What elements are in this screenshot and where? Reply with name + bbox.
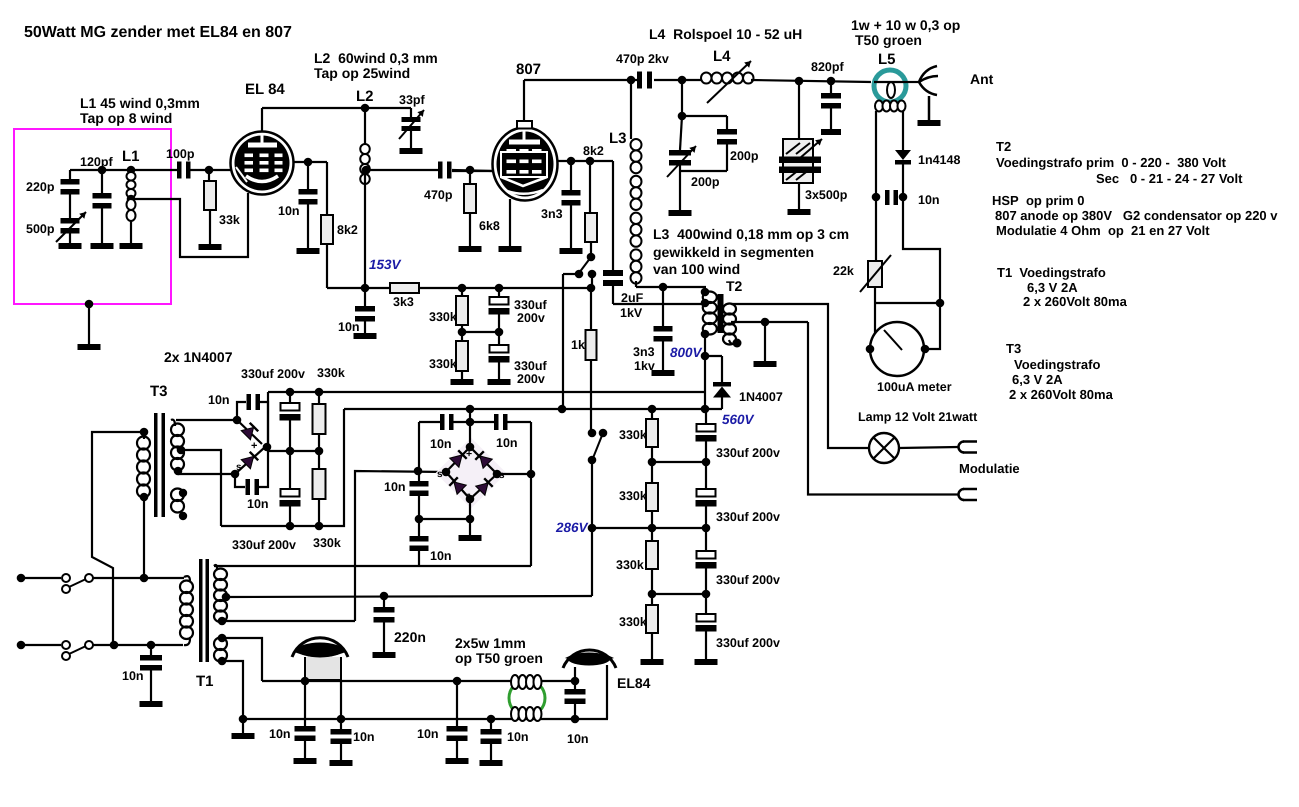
svg-text:330uf 200v: 330uf 200v [241,367,305,381]
ground 10n out2 [330,760,353,766]
svg-text:470p: 470p [424,188,453,202]
svg-text:100uA meter: 100uA meter [877,380,952,394]
svg-text:L1: L1 [122,148,140,165]
wire toroid right lead [340,680,342,719]
node T3 primary top [140,428,149,437]
svg-text:Ant: Ant [970,71,994,87]
wire tap to jack2 [808,322,958,495]
svg-text:330uf 200v: 330uf 200v [716,510,780,524]
node T3 sec bottom [174,467,183,476]
wire filament B y=719 [243,718,608,720]
svg-text:gewikkeld in segmenten: gewikkeld in segmenten [653,244,814,260]
svg-text:HSP op prim 0: HSP op prim 0 [992,193,1084,208]
node T2 primary bottom [701,330,710,339]
node doubler plus [263,443,272,452]
svg-text:10n: 10n [417,727,439,741]
node L1 top junction [127,166,136,175]
rail 560V y=409 [344,408,722,410]
ground 3n3 1kv [652,370,675,376]
svg-text:330k: 330k [619,428,647,442]
svg-text:470p 2kv: 470p 2kv [616,52,669,66]
svg-text:330k: 330k [616,558,644,572]
svg-text:10n: 10n [918,193,940,207]
wire L5 secondary right [902,111,904,150]
jack Modulatie bottom [959,489,964,500]
svg-text:2 x 260Volt 80ma: 2 x 260Volt 80ma [1009,387,1114,402]
wire 800V to rail392 [704,356,706,409]
ground 820pf [821,129,841,135]
ground 330uf filter [488,379,511,385]
rail T3 mid y=451 [268,450,319,452]
node T1 heater bottom [218,657,227,666]
svg-text:330uf 200v: 330uf 200v [716,636,780,650]
svg-text:330uf 200v: 330uf 200v [716,446,780,460]
ground bridge [459,535,482,541]
wire 807 anode rail y=80 [524,79,638,81]
rung 1 [652,461,706,463]
node 3n3 1kv [659,283,668,292]
svg-text:200p: 200p [730,149,759,163]
ground wireB [232,733,255,739]
node bridge bottom tee [466,515,475,524]
svg-text:807 anode op 380V G2 condens: 807 anode op 380V G2 condensator op 220 … [995,208,1278,223]
node bridge left [442,468,451,477]
toroid transformer left [292,638,348,680]
svg-text:120pf: 120pf [80,155,113,169]
svg-text:10n: 10n [507,730,529,744]
node doubler in top [233,416,242,425]
svg-text:L3: L3 [609,130,627,147]
node wireB left [239,715,248,724]
node T1 heater top [218,634,227,643]
node 10n 153V [361,284,370,293]
ground 3x500p [788,209,811,215]
node L4 left [678,76,687,85]
wire L4 tuning branch [681,80,683,116]
svg-text:330uf: 330uf [514,359,547,373]
wire L1 tap to EL84 cathode [131,193,248,257]
wire T2 secondary top to lamp [731,304,869,448]
svg-text:L1 45 wind 0,3mm: L1 45 wind 0,3mm [80,95,200,111]
807 top cap [517,121,532,129]
svg-text:6,3 V 2A: 6,3 V 2A [1012,372,1063,387]
svg-text:330k: 330k [429,357,457,371]
switch mains 2 [17,641,26,650]
svg-text:33pf: 33pf [399,93,426,107]
svg-text:T1: T1 [196,673,214,690]
svg-text:330uf 200v: 330uf 200v [716,573,780,587]
rail HT y=392 [269,391,705,393]
svg-text:10n: 10n [278,204,300,218]
svg-text:10n: 10n [269,727,291,741]
svg-text:EL 84: EL 84 [245,81,285,98]
svg-text:L3 400wind 0,18 mm op 3 cm: L3 400wind 0,18 mm op 3 cm [653,226,849,242]
ground bleeder resistors [641,659,664,665]
ground 10n EL84 [297,248,320,254]
wire rectifier to meter right [903,197,940,349]
ground 330k filter [451,379,474,385]
node T3 primary bottom [140,493,149,502]
node T2 secondary end [733,339,742,348]
svg-text:1kV: 1kV [620,306,643,320]
node 330k a [458,284,467,293]
node 200p junction [678,112,687,121]
svg-text:220p: 220p [26,180,55,194]
svg-text:6,3 V 2A: 6,3 V 2A [1027,280,1078,295]
ground L1 [120,243,143,249]
node T3 heater b [179,512,187,520]
ground 10n out4 [480,760,503,766]
wire right toroid right lead [606,665,608,719]
svg-text:Tap op 8 wind: Tap op 8 wind [80,110,172,126]
wire heater top to wireA [222,638,262,681]
node out5 bottom [571,715,580,724]
node 6k8 [466,166,475,175]
ground 3n3 [560,248,583,254]
node cap tee [466,418,475,427]
diode 1N4007 a [237,420,262,444]
node bridge bottom [466,495,475,504]
node bridge right [493,470,502,479]
node mains2 x junction [110,641,119,650]
wire T2 primary feed [704,334,706,356]
node bridge top [466,443,475,452]
svg-text:L2: L2 [356,88,374,105]
svg-text:1n4148: 1n4148 [918,153,960,167]
node filter mid-c [495,328,504,337]
wire T1 HV tap to 286V [226,596,592,597]
svg-text:807: 807 [516,61,541,78]
node 120pf junction [98,166,107,175]
svg-text:22k: 22k [833,264,854,278]
svg-text:330k: 330k [619,489,647,503]
svg-text:10n: 10n [122,669,144,683]
svg-text:Modulatie 4 Ohm op 21 en 27: Modulatie 4 Ohm op 21 en 27 Volt [996,223,1210,238]
node filter mid-r [458,328,467,337]
wire bridge top to rail [469,409,471,447]
wire T3 primary top to mains2 [92,432,144,645]
node screen/10n [304,158,313,167]
tube 807 (PA) [493,128,558,201]
svg-text:33k: 33k [219,213,240,227]
wire 22k to meter [875,302,940,304]
wire T1 primary top lead [184,576,190,581]
node 3x500p [795,77,804,86]
svg-text:1w + 10 w 0,3 op: 1w + 10 w 0,3 op [851,17,960,33]
wire EL84 anode to L2 top [261,108,263,132]
svg-text:3x500p: 3x500p [805,188,848,202]
svg-text:T3: T3 [150,383,168,400]
node bridge left col [414,467,423,476]
svg-text:200v: 200v [517,372,545,386]
wire plus to rail392 [267,392,269,447]
svg-text:100p: 100p [166,147,195,161]
svg-text:op T50 groen: op T50 groen [455,650,543,666]
wire T2 secondary tap [731,321,808,323]
node toroid right lead [337,715,346,724]
svg-text:Voedingstrafo: Voedingstrafo [1014,357,1100,372]
wire T3 sec top [176,419,237,421]
node 1k top [587,284,596,293]
svg-text:8k2: 8k2 [583,144,604,158]
svg-text:330uf: 330uf [514,298,547,312]
wire 807 grid [452,170,493,172]
svg-text:Sec 0 - 21 - 24 - 27 Volt: Sec 0 - 21 - 24 - 27 Volt [1096,171,1243,186]
wire bridge bottom [469,499,471,519]
bridge rectifier 4x diode [436,438,507,509]
node toroid left lead [301,677,310,686]
svg-text:330k: 330k [317,366,345,380]
wire L2 tap to 470p [366,169,439,171]
node T2 primary top [701,288,710,297]
node 8k2-807 [586,157,595,166]
wire HV bridge left [355,471,446,621]
node T1 HV tap [222,593,231,602]
node 330uf a [495,284,504,293]
wire T3 sec bottom [177,471,179,474]
svg-text:330k: 330k [429,310,457,324]
svg-text:800V: 800V [670,345,703,360]
jack Modulatie top [959,442,964,453]
toroid transformer right (EL84) [563,650,616,668]
node L2 top [361,104,370,113]
ground 10n out1 [294,758,317,764]
svg-text:3k3: 3k3 [393,295,414,309]
node doubler in bottom [231,470,240,479]
wire 807 cathode [509,199,511,246]
node right col [527,470,536,479]
svg-text:T50 groen: T50 groen [855,32,922,48]
ground 6k8 [459,246,482,252]
svg-text:10n: 10n [496,436,518,450]
inductor T50 green toroid [509,680,545,716]
wire switch to 560V rail [562,274,564,409]
svg-text:L5: L5 [878,51,896,68]
node 820pf [827,77,836,86]
wire right toroid left lead [574,667,576,681]
svg-text:560V: 560V [722,412,755,427]
switch HT to 286V [588,429,597,438]
wire HV return y=566 [214,565,531,567]
ground 220n [373,652,396,658]
svg-text:T2: T2 [726,278,743,294]
svg-text:2x5w 1mm: 2x5w 1mm [455,635,526,651]
ground 10n mains [140,701,163,707]
svg-text:Modulatie: Modulatie [959,461,1020,476]
switch mains 1 [17,574,26,583]
wire input top rail y=170 [70,169,178,171]
svg-text:50Watt MG zender met EL84 en 8: 50Watt MG zender met EL84 en 807 [24,24,292,41]
node 33k junction [205,166,214,175]
svg-text:286V: 286V [555,520,589,535]
node left col mid [415,515,424,524]
node L1 tap [127,195,136,204]
wire right col [530,422,532,566]
svg-text:van 100 wind: van 100 wind [653,261,740,277]
ground 33pf [400,148,423,154]
svg-text:+: + [251,440,257,452]
wire 153V rail y=288 [327,287,390,289]
diode 1N4007 b [235,448,264,474]
node 10n mains [147,641,156,650]
svg-text:T3: T3 [1006,341,1021,356]
svg-text:L4 Rolspoel 10 - 52 uH: L4 Rolspoel 10 - 52 uH [649,26,802,42]
svg-text:2 x 260Volt 80ma: 2 x 260Volt 80ma [1023,294,1128,309]
rung 286V [592,527,706,529]
node T3 sec tap [177,446,186,455]
ground T2 secondary [754,361,777,367]
wire T3 sec tap to bottom rail [181,450,221,526]
svg-text:820pf: 820pf [811,60,844,74]
svg-text:8k2: 8k2 [337,223,358,237]
L5 secondary winding [875,101,883,112]
node L2 tap [362,166,371,175]
wire T1 HV top y=566 [214,565,217,569]
svg-text:10n: 10n [247,497,269,511]
node T1 HV bottom [218,617,227,626]
node T2 tap ground [761,318,770,327]
node T2 primary tap [701,299,710,308]
wire L5 secondary left [875,111,877,261]
ground 807 cathode [499,246,522,252]
svg-text:330k: 330k [313,536,341,550]
svg-text:10n: 10n [567,732,589,746]
node L3/470p junction [627,76,636,85]
svg-text:10n: 10n [208,393,230,407]
wire heater bottom to wireB [222,661,243,719]
node 10n out3 [453,677,462,686]
svg-text:3n3: 3n3 [633,345,655,359]
switch keying (8k2) [587,253,596,262]
svg-text:153V: 153V [369,257,402,272]
svg-text:330uf 200v: 330uf 200v [232,538,296,552]
svg-text:T2: T2 [996,139,1011,154]
svg-text:1k: 1k [571,338,585,352]
wire T3 primary bottom to mains1 [143,497,145,578]
ground 200p var [669,210,692,216]
svg-text:10n: 10n [430,437,452,451]
svg-text:10n: 10n [430,549,452,563]
svg-text:10n: 10n [353,730,375,744]
wire 807 screen row [557,160,613,162]
ground 500p [59,243,82,249]
node 3n3 [567,157,576,166]
svg-text:6k8: 6k8 [479,219,500,233]
shield box (magenta) around L1 input tank [14,129,171,304]
svg-text:L4: L4 [713,48,731,65]
rung 3 [652,593,706,595]
svg-text:L2 60wind 0,3 mm: L2 60wind 0,3 mm [314,50,438,66]
ground 10n out3 [446,758,469,764]
node T3 heater a [179,489,187,497]
node 800V [701,352,710,361]
wire EL84 screen node [294,161,328,163]
node 10n right [899,193,908,202]
ground bleeder caps [695,659,718,665]
svg-text:200v: 200v [517,311,545,325]
wire filament A y=681 [262,680,575,682]
svg-text:500p: 500p [26,222,55,236]
node green toroid out [571,677,580,686]
shield ground stub [85,300,94,309]
svg-text:Tap op 25wind: Tap op 25wind [314,65,410,81]
svg-text:3n3: 3n3 [541,207,563,221]
wire 286V down to T1 tap wire [591,528,593,596]
svg-text:200p: 200p [691,175,720,189]
svg-text:Voedingstrafo prim 0 - 220 -: Voedingstrafo prim 0 - 220 - 380 Volt [996,155,1227,170]
node 10n left [872,193,881,202]
node 10n out4 [487,715,496,724]
capacitor 3x500p (triple variable) [798,81,800,139]
node meter feed [936,299,945,308]
ground 33k [199,244,222,250]
svg-text:EL84: EL84 [617,675,651,691]
svg-text:2x 1N4007: 2x 1N4007 [164,349,233,365]
svg-text:10n: 10n [338,320,360,334]
ground antenna [918,120,941,126]
rail T3 bottom y=526 [221,409,344,526]
svg-text:220n: 220n [394,629,426,645]
meter 100uA [870,322,924,376]
svg-text:Lamp 12 Volt 21watt: Lamp 12 Volt 21watt [858,410,978,424]
node mains1/T3 [140,574,149,583]
svg-text:T1 Voedingstrafo: T1 Voedingstrafo [997,265,1106,280]
tube EL84 (driver) [231,132,294,195]
ground 120pf [91,243,114,249]
svg-text:10n: 10n [384,480,406,494]
ground 10n 153V [354,333,377,339]
svg-text:1N4007: 1N4007 [739,390,783,404]
svg-text:330k: 330k [619,615,647,629]
wire T1 HV bottom to bridge [222,620,355,622]
